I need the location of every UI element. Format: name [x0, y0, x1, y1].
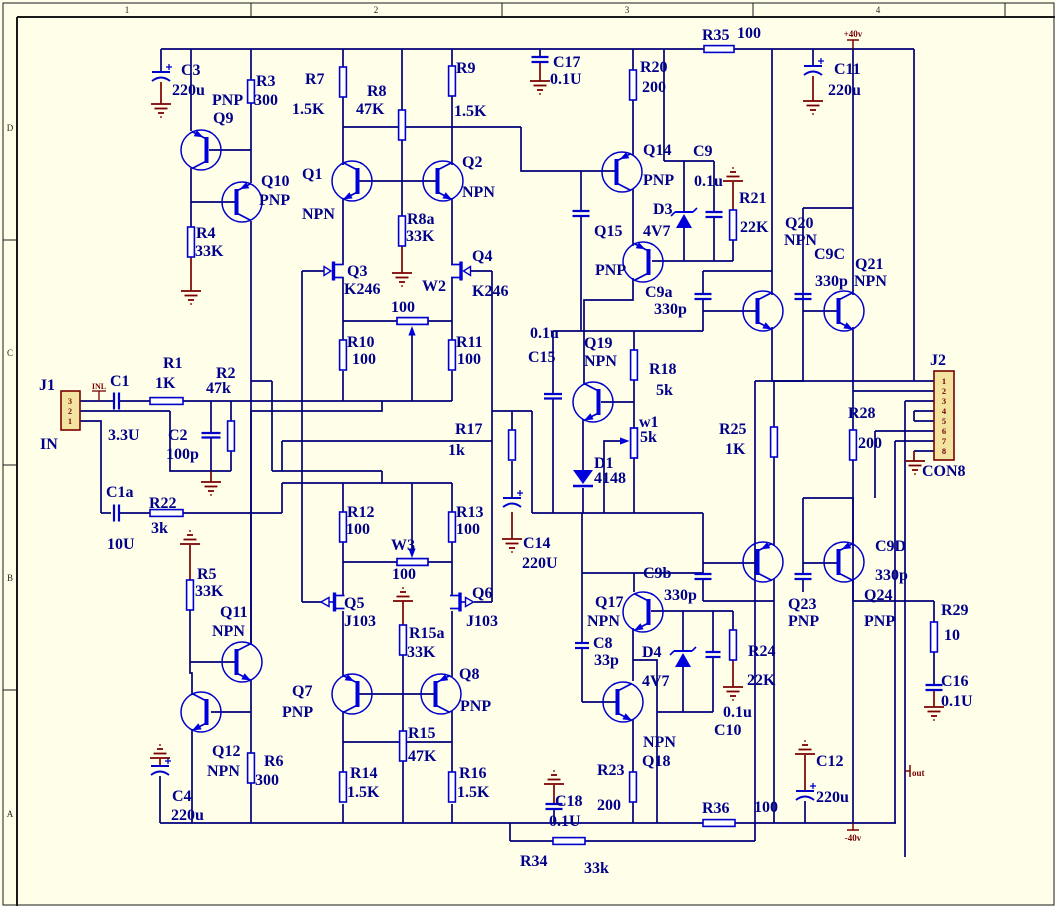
wire J2 pin3 [905, 400, 934, 402]
svg-text:220u: 220u [828, 82, 861, 99]
transistor Q18 (NPN) [603, 682, 643, 722]
svg-text:3: 3 [68, 397, 72, 406]
wire ground to C18 [553, 785, 555, 804]
ground C3 [151, 104, 171, 117]
svg-text:R6: R6 [264, 753, 284, 770]
wire C2 top [210, 401, 212, 433]
wire Q11 collector column [250, 411, 252, 645]
wire Q10 collector to Q11 collector [250, 221, 252, 645]
capacitor C7 [573, 211, 590, 216]
wire Q17 base to R24 [651, 610, 733, 612]
potentiometer W3 [397, 549, 428, 566]
transistor Q6 (JFET) [450, 593, 474, 612]
transistor Q3 (JFET) [324, 262, 344, 281]
wire +40 to J2 pin1 [913, 49, 915, 381]
transistor Q21 (NPN) [824, 291, 864, 331]
svg-text:8: 8 [942, 446, 946, 456]
wire R12 bottom [342, 542, 344, 562]
ground C4 top [150, 745, 170, 758]
wire C8 to Q18 base [581, 648, 583, 702]
transistor Q10 (PNP) [222, 182, 262, 222]
svg-text:100: 100 [754, 799, 778, 816]
svg-text:33K: 33K [195, 583, 224, 600]
wire R29 top [933, 601, 935, 622]
wire Q14 base to C7 [580, 171, 582, 211]
svg-text:PNP: PNP [212, 92, 243, 109]
svg-text:330p: 330p [654, 301, 687, 318]
wire C9 top [713, 161, 715, 212]
wire C10 bottom [712, 657, 714, 712]
capacitor C15 [544, 394, 562, 399]
svg-text:5k: 5k [656, 382, 673, 399]
svg-text:R13: R13 [456, 504, 484, 521]
wire pin45 tie [913, 411, 915, 421]
svg-text:C9a: C9a [645, 284, 673, 301]
wire R18 to w1 [633, 380, 635, 428]
svg-text:J1: J1 [39, 377, 55, 394]
resistor R23 [630, 772, 637, 802]
wire Q24 collector jog [803, 498, 853, 546]
svg-text:C15: C15 [528, 349, 556, 366]
svg-text:220u: 220u [816, 789, 849, 806]
svg-text:200: 200 [642, 79, 666, 96]
wire R9 top [451, 49, 453, 66]
resistor R6 [248, 753, 255, 783]
wire R20 to Q14 emitter [632, 100, 634, 156]
svg-text:100: 100 [392, 566, 416, 583]
svg-text:1: 1 [68, 417, 72, 426]
wire R13 bottom [451, 542, 453, 562]
svg-text:3.3U: 3.3U [108, 427, 140, 444]
wire Q20 base [703, 310, 757, 312]
resistor R35 [704, 46, 734, 53]
wire Q18 collector branch [633, 660, 657, 823]
resistor R24 [730, 630, 737, 660]
power port +40v [847, 40, 859, 49]
potentiometer w1 [620, 428, 637, 458]
svg-text:R14: R14 [350, 765, 378, 782]
svg-text:220U: 220U [522, 555, 558, 572]
svg-text:Q17: Q17 [595, 594, 623, 611]
svg-text:R17: R17 [455, 421, 483, 438]
wire J2 pin2 [853, 390, 934, 392]
capacitor C9D [795, 574, 812, 579]
svg-text:C14: C14 [523, 535, 551, 552]
svg-text:NPN: NPN [784, 232, 817, 249]
svg-text:5k: 5k [640, 429, 657, 446]
svg-text:10U: 10U [107, 536, 135, 553]
svg-text:R21: R21 [739, 190, 767, 207]
wire feedback node [183, 512, 282, 514]
wire R7 to Q1 collector [342, 97, 344, 165]
svg-text:D3: D3 [653, 201, 673, 218]
wire Q18 base [582, 701, 616, 703]
svg-text:NPN: NPN [212, 623, 245, 640]
potentiometer W2 [397, 318, 428, 336]
wire R16 to rail [451, 804, 453, 823]
wire R25 top [773, 381, 775, 427]
svg-text:33K: 33K [407, 644, 436, 661]
svg-text:D: D [7, 123, 14, 133]
wire R18 top [633, 331, 635, 350]
svg-text:Q10: Q10 [261, 173, 289, 190]
wire C9a top [702, 271, 704, 294]
wire C9b to Q23 collector [703, 600, 774, 602]
svg-text:out: out [912, 768, 925, 778]
wire Q3 gate [302, 270, 324, 272]
wire x532 drop [531, 411, 533, 513]
capacitor C3 [152, 64, 172, 81]
wire Q23 collector to rail [773, 579, 775, 823]
resistor R15 [400, 731, 407, 761]
svg-text:R36: R36 [702, 800, 730, 817]
wire R5 to Q11 base [189, 610, 191, 662]
resistor R22 [150, 510, 183, 517]
wire R34 line [510, 840, 755, 842]
capacitor C9C [795, 294, 812, 299]
wire to ground [210, 471, 212, 482]
svg-text:200: 200 [858, 435, 882, 452]
wire -40 rail left [160, 822, 703, 824]
svg-text:Q8: Q8 [459, 666, 479, 683]
wire C17 to ground [539, 62, 541, 81]
svg-text:R20: R20 [640, 59, 668, 76]
ground J2 pin8 [905, 461, 925, 474]
connector J1 [61, 391, 80, 430]
capacitor C9b [695, 574, 712, 579]
capacitor C17 [532, 57, 549, 62]
capacitor C11 [804, 58, 824, 75]
svg-text:PNP: PNP [788, 613, 819, 630]
wire Q7 Q8 base [359, 693, 434, 695]
ground C14 [502, 539, 522, 552]
svg-text:10: 10 [944, 627, 960, 644]
wire R15 to rail [402, 761, 404, 823]
transistor Q17 (NPN) [623, 592, 663, 632]
wire input node [183, 400, 452, 402]
svg-text:1: 1 [942, 376, 946, 386]
wire D4 C10 bottom node [657, 711, 713, 713]
wire C11 to ground [812, 76, 814, 101]
svg-text:R22: R22 [149, 495, 177, 512]
svg-text:R29: R29 [941, 602, 969, 619]
wire +40 rail right [734, 48, 914, 50]
transistor Q7 (PNP) [332, 674, 372, 714]
wire Q4 gate to Q6 gate column [491, 271, 493, 602]
wire R15a to base node [402, 655, 404, 694]
svg-text:Q9: Q9 [213, 110, 233, 127]
svg-text:B: B [7, 573, 13, 583]
svg-text:R16: R16 [459, 765, 487, 782]
wire C9C top [802, 208, 804, 294]
svg-text:Q15: Q15 [594, 223, 622, 240]
wire W2 left [343, 320, 397, 322]
wire Q6 drain [451, 562, 453, 595]
svg-text:100: 100 [457, 351, 481, 368]
svg-text:R8: R8 [367, 83, 387, 100]
wire Q23 base [703, 562, 757, 564]
wire J2 pin7 [895, 440, 934, 442]
wire Q18 emitter to R23 [632, 719, 634, 772]
wire R29 to C16 [933, 652, 935, 685]
wire D3 C9 top [664, 160, 714, 162]
wire D3 bottom stub [683, 226, 685, 261]
wire R34 jog [509, 823, 511, 841]
wire Q5 gate [302, 601, 321, 603]
wire R25 to Q23 emitter [773, 457, 775, 546]
transistor Q15 (PNP) [623, 242, 663, 282]
wire D4 bottom stub [682, 666, 684, 712]
ground R4 [181, 291, 201, 304]
wire out column [904, 401, 906, 857]
svg-text:47k: 47k [206, 380, 231, 397]
svg-text:R18: R18 [649, 361, 677, 378]
svg-text:J2: J2 [930, 352, 946, 369]
svg-text:2: 2 [942, 386, 946, 396]
wire output node to R29 [853, 600, 934, 602]
svg-text:PNP: PNP [460, 698, 491, 715]
wire Q9 base [209, 149, 251, 151]
svg-text:100: 100 [391, 299, 415, 316]
wire W3 wiper [411, 483, 413, 552]
wire R11 bottom [451, 371, 453, 401]
svg-text:47K: 47K [408, 748, 437, 765]
resistor R2 [228, 421, 235, 451]
svg-text:Q12: Q12 [212, 743, 240, 760]
wire to Q14 base [521, 127, 616, 171]
capacitor C12 [796, 783, 816, 800]
svg-text:2: 2 [374, 5, 379, 15]
capacitor C16 [926, 685, 943, 690]
capacitor C9 [706, 212, 723, 217]
wire W2 wiper [411, 330, 413, 401]
svg-text:C2: C2 [168, 427, 188, 444]
wire R24 to ground [732, 660, 734, 687]
wire J2 pin8 [914, 450, 934, 452]
wire Q4 gate [471, 270, 492, 272]
wire J2 pin4 [914, 410, 934, 412]
wire tail node [382, 471, 452, 483]
wire Q7 collector to R14 [342, 711, 344, 772]
svg-text:R11: R11 [456, 334, 483, 351]
wire rail to D3 node [663, 49, 665, 161]
svg-text:Q1: Q1 [302, 166, 322, 183]
svg-text:R24: R24 [748, 643, 776, 660]
svg-text:K246: K246 [472, 283, 508, 300]
resistor R1 [150, 398, 183, 405]
wire C11 top [812, 49, 814, 66]
wire C14 to ground [511, 512, 513, 539]
svg-text:C: C [7, 348, 13, 358]
ground R15a top [393, 588, 413, 601]
svg-text:33k: 33k [584, 860, 609, 877]
svg-text:R3: R3 [256, 73, 276, 90]
wire C9D bottom stub [802, 579, 804, 592]
wire C15 top [552, 331, 554, 394]
resistor R7 [340, 67, 347, 97]
svg-text:R4: R4 [196, 225, 216, 242]
wire R2 top [230, 401, 232, 421]
wire J2 pin5 [914, 420, 934, 422]
svg-text:1.5K: 1.5K [457, 784, 490, 801]
wire to C8 node [581, 513, 583, 573]
svg-text:R23: R23 [597, 762, 625, 779]
wire Q1 collector node [343, 126, 521, 128]
svg-text:Q18: Q18 [642, 753, 670, 770]
wire C1a to R22 [119, 512, 150, 514]
svg-text:C17: C17 [553, 54, 581, 71]
wire pin7 to rail [894, 441, 896, 823]
svg-text:R10: R10 [347, 334, 375, 351]
resistor R15a [400, 625, 407, 655]
svg-text:C18: C18 [555, 793, 583, 810]
svg-text:C11: C11 [834, 61, 861, 78]
svg-text:C9C: C9C [814, 246, 845, 263]
wire C12 to rail [804, 801, 806, 823]
wire tail node left [282, 482, 382, 484]
svg-text:0.1u: 0.1u [723, 704, 752, 721]
resistor R36 [703, 820, 735, 827]
svg-text:330p: 330p [664, 587, 697, 604]
svg-text:+40v: +40v [844, 29, 863, 39]
wire C10 top [712, 611, 714, 652]
svg-text:300: 300 [255, 772, 279, 789]
resistor R34 [553, 838, 585, 845]
resistor R25 [771, 427, 778, 457]
wire pin1 column down [754, 381, 756, 841]
svg-text:A: A [7, 809, 14, 819]
svg-text:R1: R1 [163, 355, 183, 372]
wire Q10 jog [251, 380, 272, 382]
svg-text:200: 200 [597, 797, 621, 814]
svg-text:C10: C10 [714, 722, 742, 739]
wire Q3 Q5 gate column [301, 271, 303, 602]
wire R17 top [511, 411, 513, 430]
svg-text:K246: K246 [344, 281, 380, 298]
wire R28 bottom [852, 460, 854, 601]
wire J1 pin1 to C1a [80, 421, 101, 513]
svg-text:CON8: CON8 [922, 463, 966, 480]
wire jog to Q21 base [772, 311, 803, 381]
resistor R8 [399, 110, 406, 140]
svg-text:PNP: PNP [864, 613, 895, 630]
ground C18 top [544, 771, 564, 784]
svg-text:1K: 1K [155, 375, 176, 392]
resistor R8a [399, 216, 406, 246]
wire y471 node [272, 470, 382, 472]
svg-text:5: 5 [942, 416, 946, 426]
wire to C9b [702, 513, 704, 574]
wire R23 to rail [632, 802, 634, 823]
svg-text:100: 100 [352, 351, 376, 368]
wire Q19 emitter to D1 [582, 419, 584, 470]
svg-text:0.1U: 0.1U [941, 693, 973, 710]
wire Q9 emitter [190, 49, 192, 131]
wire x282 lower [281, 483, 283, 513]
svg-text:R28: R28 [848, 405, 876, 422]
transistor Q9 (PNP) [181, 130, 221, 170]
wire Q12 base [211, 711, 251, 713]
svg-text:D4: D4 [642, 644, 662, 661]
connector J2 [934, 371, 954, 460]
capacitor C14 [503, 490, 523, 507]
wire y441 gate node [282, 440, 492, 442]
svg-text:PNP: PNP [595, 262, 626, 279]
wire Q15 collector [584, 278, 633, 331]
wire D1 bottom [582, 488, 584, 513]
wire Q1 Q2 base [359, 180, 436, 182]
wire x282 upper [281, 441, 283, 471]
resistor R20 [630, 70, 637, 100]
svg-text:3: 3 [625, 5, 630, 15]
svg-text:NPN: NPN [854, 273, 887, 290]
transistor Q2 (NPN) [423, 161, 463, 201]
resistor R18 [631, 350, 638, 380]
power port -40v [847, 823, 859, 830]
transistor Q24 (PNP) [824, 542, 864, 582]
wire Q3 source [342, 277, 344, 321]
svg-text:Q4: Q4 [472, 248, 492, 265]
wire Q19 collector [583, 331, 585, 385]
net label INL [92, 391, 106, 401]
wire W3 right [428, 561, 452, 563]
wire w1 bottom [633, 458, 635, 513]
power port out [905, 765, 910, 777]
ground R21 top [723, 168, 743, 181]
svg-text:Q2: Q2 [462, 154, 482, 171]
wire Q11 base [190, 661, 235, 663]
svg-text:4: 4 [876, 5, 881, 15]
svg-text:1.5K: 1.5K [347, 784, 380, 801]
wire J2 pin1 [755, 380, 934, 382]
svg-text:Q6: Q6 [472, 585, 492, 602]
resistor R14 [340, 772, 347, 802]
wire Q15 base node [652, 260, 733, 262]
wire y411 to R17 [492, 410, 532, 412]
wire Q20 collector node [703, 270, 772, 272]
wire Q10 current column [271, 381, 273, 471]
svg-text:3k: 3k [151, 520, 168, 537]
ground R24 [723, 687, 743, 700]
resistor R21 [730, 210, 737, 240]
wire R20 top [632, 49, 634, 70]
resistor R28 [850, 430, 857, 460]
wire Q9 collector to R4 [190, 168, 192, 227]
resistor R11 [449, 340, 456, 370]
svg-text:R8a: R8a [407, 211, 435, 228]
svg-text:PNP: PNP [643, 172, 674, 189]
wire pin6 column [874, 431, 876, 498]
transistor Q20 (NPN) [743, 291, 783, 331]
wire Q6 gate [474, 601, 492, 603]
resistor R12 [340, 512, 347, 542]
wire R11 top stub [451, 321, 453, 340]
wire -40 rail right [734, 822, 896, 824]
svg-text:Q20: Q20 [785, 215, 813, 232]
svg-text:0.1U: 0.1U [549, 813, 581, 830]
wire y742 node [343, 741, 452, 743]
resistor R10 [340, 340, 347, 370]
svg-text:0.1u: 0.1u [530, 325, 559, 342]
svg-text:22K: 22K [740, 219, 769, 236]
svg-text:NPN: NPN [584, 353, 617, 370]
wire R3 top [250, 49, 252, 80]
capacitor C8 [575, 643, 589, 648]
wire C1 to R1 [119, 400, 150, 402]
wire Q5 source to Q7 emitter [342, 611, 344, 677]
svg-text:R35: R35 [702, 27, 730, 44]
svg-text:220u: 220u [171, 807, 204, 824]
